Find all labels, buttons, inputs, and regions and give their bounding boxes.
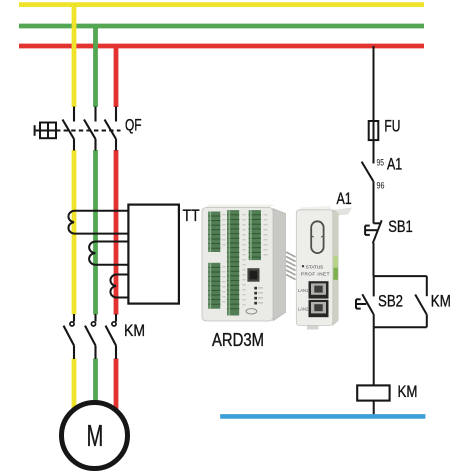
wire branch bottom — [374, 326, 427, 328]
svg-text:SB1: SB1 — [388, 217, 413, 236]
device A1 ARD3M relay module photo — [202, 205, 352, 330]
breaker QF trip unit box — [35, 123, 56, 139]
svg-text:ARD3M: ARD3M — [212, 329, 264, 350]
wire phase A yellow (x=74) — [72, 5, 77, 410]
svg-text:A1: A1 — [387, 155, 402, 174]
stop button SB1 (NC pushbutton) — [365, 220, 382, 276]
svg-text:TT: TT — [183, 206, 200, 225]
wire phase B green (x=95.5) — [93, 26, 98, 403]
svg-text:STATUS: STATUS — [306, 265, 323, 270]
svg-text:A1: A1 — [337, 189, 352, 208]
PROFINET module bottom tab — [307, 325, 319, 330]
terminal block column 3 — [249, 210, 261, 260]
svg-text:95: 95 — [377, 158, 385, 168]
PROFINET module side green strip — [333, 256, 338, 268]
start button SB2 (NO pushbutton) — [356, 276, 374, 327]
wire to coil — [373, 327, 375, 385]
bus L1 (yellow phase bus) — [19, 2, 424, 7]
contactor KM pole 3 — [106, 314, 117, 359]
ARD3M main module right side face — [273, 209, 286, 321]
svg-text:KM: KM — [398, 382, 418, 401]
contactor KM pole 2 — [85, 314, 96, 359]
face marking dashes — [222, 214, 267, 305]
LAN2 RJ45 port — [309, 300, 329, 317]
current transformer TT box — [128, 205, 179, 304]
svg-text:SB2: SB2 — [378, 292, 403, 311]
svg-text:96: 96 — [377, 181, 385, 191]
breaker QF pole 3 — [105, 107, 117, 151]
motor M circle — [62, 403, 128, 469]
status LEDs — [254, 287, 263, 305]
PROFINET module right side face — [333, 210, 338, 326]
wire branch top — [374, 275, 427, 277]
svg-text:FU: FU — [384, 117, 400, 136]
wire coil to neutral — [373, 401, 375, 417]
control wire from L3 to fuse and A1 contact — [373, 46, 375, 164]
svg-text:KM: KM — [431, 292, 451, 311]
ARD3M main module front face — [202, 208, 273, 322]
breaker QF pole 2 — [84, 107, 96, 151]
terminal block column 1 group 2 — [208, 263, 220, 309]
wire phase C red (x=116) — [114, 46, 119, 411]
terminal block column 2 — [227, 210, 239, 315]
aux contact KM (latching) — [415, 276, 427, 327]
backplane connector pins — [286, 252, 296, 280]
PROFINET module top face — [333, 208, 352, 217]
bus N (blue neutral) — [220, 414, 425, 419]
svg-text:KM: KM — [124, 321, 145, 340]
DIN latch obround — [311, 221, 323, 253]
svg-text:M: M — [87, 418, 104, 453]
PROFINET module front face — [296, 210, 333, 326]
svg-text:PROF INET: PROF INET — [301, 271, 330, 276]
svg-text:LAN2: LAN2 — [298, 307, 309, 312]
current transformer TT winding 1 — [68, 211, 128, 234]
coil KM — [357, 385, 389, 400]
svg-text:QF: QF — [125, 116, 142, 135]
svg-text:LAN1: LAN1 — [298, 288, 309, 293]
front RJ45 socket — [247, 268, 259, 282]
ARD3M main module top face — [205, 205, 275, 208]
oval logo — [246, 309, 257, 314]
STATUS led label — [302, 265, 304, 267]
terminal block column 1 group 1 — [208, 212, 220, 253]
current transformer TT winding 2 — [89, 242, 128, 265]
bus L2 (green phase bus) — [19, 24, 424, 29]
breaker QF pole 1 — [63, 107, 75, 151]
contactor KM pole 1 — [64, 314, 75, 359]
breaker QF trip linkage (dashed) — [56, 130, 121, 132]
LAN1 RJ45 port — [309, 281, 329, 298]
bus L3 (red phase bus) — [19, 44, 424, 49]
overload relay contact A1 (95-96) — [362, 162, 374, 224]
current transformer TT winding 3 — [110, 275, 128, 298]
fuse FU — [369, 121, 379, 140]
